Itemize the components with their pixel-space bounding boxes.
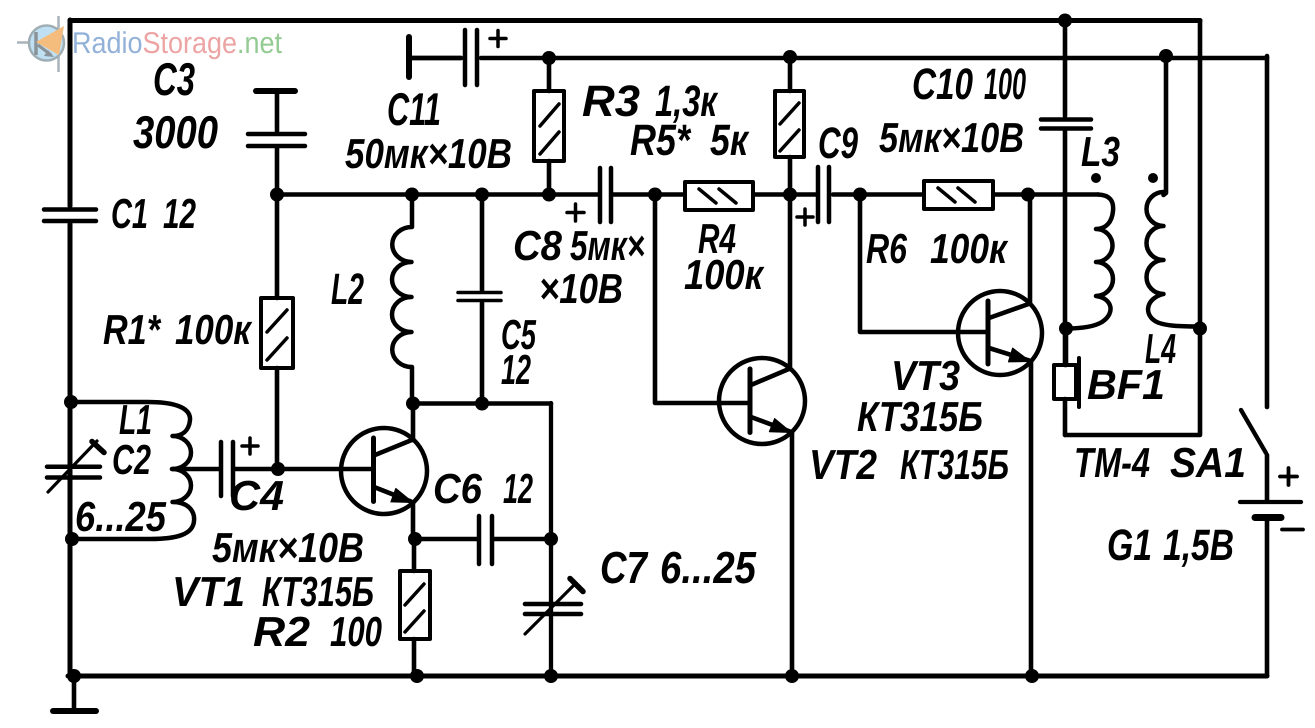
svg-text:C1: C1 — [111, 190, 148, 237]
wire V+ rail2 — [411, 56, 1267, 61]
node rail3 R4/R5/C9/VT2 collector — [783, 188, 797, 202]
svg-text:VT3: VT3 — [891, 352, 960, 399]
svg-text:R2: R2 — [253, 608, 310, 655]
svg-text:C11: C11 — [387, 83, 441, 135]
node rail3 R6 left/VT3 base — [853, 188, 867, 202]
resistor R1 — [261, 195, 293, 469]
capacitor C3 — [248, 91, 305, 194]
wire C10 branch x1065 — [1063, 21, 1068, 366]
node C5 bottom — [475, 397, 489, 411]
node C7 bottom — [544, 669, 558, 683]
node rail3 R3 bottom — [542, 188, 556, 202]
svg-text:BF1: BF1 — [1087, 361, 1165, 408]
transformer phase dot L3 — [1091, 173, 1101, 183]
inductor L3 — [1066, 195, 1113, 329]
inductor L2 — [392, 195, 412, 403]
svg-text:C4: C4 — [229, 472, 284, 519]
svg-text:C10: C10 — [912, 60, 973, 109]
resistor R3 — [534, 58, 564, 194]
wire base rail3 — [277, 192, 1098, 197]
capacitor C7 (variable) — [525, 579, 583, 635]
svg-text:6...25: 6...25 — [660, 542, 757, 593]
svg-text:1,5В: 1,5В — [1163, 521, 1234, 570]
transistor VT3 — [958, 195, 1042, 676]
svg-text:C8: C8 — [513, 222, 563, 269]
svg-text:×10В: ×10В — [539, 265, 623, 312]
inductor L1 — [71, 402, 194, 539]
svg-text:C3: C3 — [153, 53, 195, 105]
svg-text:6...25: 6...25 — [75, 493, 167, 540]
svg-text:12: 12 — [501, 346, 531, 393]
wire switch branch x1267 — [1265, 56, 1270, 407]
node rail3 L2 top — [405, 188, 419, 202]
svg-text:C7: C7 — [600, 542, 649, 593]
inductor L4 — [1147, 192, 1201, 327]
capacitor C2 (variable) — [47, 441, 104, 492]
svg-text:100к: 100к — [175, 306, 252, 353]
svg-text:VT1: VT1 — [172, 568, 245, 615]
node rail3 C3/R1 — [270, 188, 284, 202]
svg-text:G1: G1 — [1107, 521, 1152, 570]
svg-text:R1*: R1* — [103, 306, 161, 353]
wire L3 to BF1 — [1064, 329, 1069, 366]
resistor R4 — [685, 182, 753, 210]
wire BF1 bottom lead — [1063, 399, 1068, 435]
node V+ top at C10 — [1058, 14, 1072, 28]
svg-text:100: 100 — [330, 608, 382, 655]
svg-text:C6: C6 — [433, 465, 483, 512]
svg-text:L3: L3 — [1081, 128, 1120, 175]
svg-text:100к: 100к — [930, 225, 1008, 272]
svg-text:КТ315Б: КТ315Б — [900, 441, 1009, 488]
svg-text:5мк×10В: 5мк×10В — [212, 524, 364, 571]
battery G1 — [1240, 468, 1303, 530]
node rail3 R6 right/VT3 collector — [1021, 188, 1035, 202]
node VT1 collector/L2 bottom — [406, 397, 420, 411]
resistor R5 — [775, 57, 804, 194]
wire battery bottom lead — [1265, 521, 1270, 676]
node rail2 R3 top — [542, 51, 556, 65]
svg-text:100к: 100к — [684, 251, 764, 298]
node VT2 emitter bottom — [785, 669, 799, 683]
node rail3 C5 top — [475, 188, 489, 202]
svg-text:SA1: SA1 — [1170, 439, 1246, 486]
transistor VT1 — [341, 404, 427, 540]
node L4 bottom — [1193, 322, 1207, 336]
svg-text:L2: L2 — [331, 265, 364, 314]
capacitor C10 — [1041, 120, 1091, 129]
transformer phase dot L4 — [1148, 173, 1158, 183]
ground — [53, 676, 96, 711]
svg-text:5мк×10В: 5мк×10В — [879, 114, 1024, 161]
svg-text:RadioStorage.net: RadioStorage.net — [72, 27, 283, 60]
node C6 right/C7 top — [544, 532, 558, 546]
node ground rail left — [67, 669, 81, 683]
wire x551 down — [549, 403, 553, 676]
node rail2 R5 top — [783, 50, 797, 64]
node R2 bottom — [410, 669, 424, 683]
node rail2 L4 top — [1159, 49, 1173, 63]
earphone BF1 — [1054, 358, 1079, 407]
capacitor C6 — [415, 516, 551, 564]
svg-text:КТ315Б: КТ315Б — [857, 393, 983, 440]
capacitor C11 — [409, 30, 506, 85]
svg-text:R5*: R5* — [630, 116, 692, 165]
wire battery top lead — [1265, 455, 1270, 500]
svg-text:5к: 5к — [710, 116, 750, 165]
logo RadioStorage.net — [17, 16, 283, 72]
wire L1 tap to C4 — [172, 467, 219, 472]
svg-text:12: 12 — [163, 190, 196, 237]
wire left border — [68, 20, 73, 676]
wire right frame x1200 — [1065, 21, 1200, 436]
svg-text:C9: C9 — [818, 119, 858, 168]
wire bottom rail — [68, 674, 1267, 679]
svg-text:ТМ-4: ТМ-4 — [1074, 439, 1150, 486]
transistor VT2 — [719, 195, 805, 676]
capacitor C4 — [221, 438, 278, 496]
wire L4 feed — [1164, 56, 1167, 195]
wire collector row y403 — [412, 401, 551, 406]
node VT3 emitter bottom — [1025, 669, 1039, 683]
svg-text:3000: 3000 — [133, 106, 218, 158]
node L3 bottom/BF1 top — [1059, 322, 1073, 336]
svg-text:R6: R6 — [866, 225, 907, 272]
resistor R2 — [400, 539, 430, 676]
wire C4 to VT1 base — [278, 467, 371, 472]
node L1 top — [64, 395, 78, 409]
svg-text:5мк×: 5мк× — [570, 222, 645, 269]
switch SA1 — [1241, 410, 1266, 453]
node rail3 C8/VT2 base — [648, 188, 662, 202]
node C4/R1/VT1 base — [271, 462, 285, 476]
wire top rail — [70, 18, 1200, 23]
svg-text:100: 100 — [984, 60, 1026, 109]
capacitor C9 — [797, 167, 829, 225]
wire VT3 base branch — [860, 195, 986, 332]
capacitor C5 — [458, 195, 501, 403]
svg-text:C2: C2 — [112, 436, 151, 483]
svg-text:12: 12 — [503, 465, 533, 512]
node L1 bottom — [65, 532, 79, 546]
resistor R6 — [924, 181, 993, 209]
capacitor C8 — [567, 168, 611, 222]
capacitor C1 — [44, 210, 96, 222]
node VT1 emitter/C6 left — [408, 532, 422, 546]
svg-text:VT2: VT2 — [809, 441, 877, 488]
svg-text:50мк×10В: 50мк×10В — [345, 130, 512, 177]
wire VT2 base branch — [655, 195, 748, 403]
